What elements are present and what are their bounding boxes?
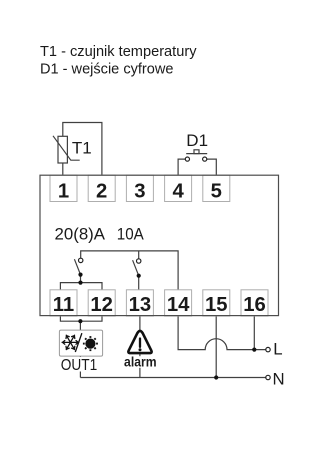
svg-text:T1 - czujnik temperatury: T1 - czujnik temperatury	[40, 43, 197, 60]
svg-text:13: 13	[129, 294, 152, 316]
svg-text:alarm: alarm	[124, 354, 157, 369]
svg-text:14: 14	[167, 294, 190, 316]
svg-text:16: 16	[243, 294, 266, 316]
svg-text:20(8)A: 20(8)A	[55, 224, 106, 243]
svg-text:12: 12	[90, 294, 113, 316]
svg-text:2: 2	[96, 180, 107, 202]
svg-text:10A: 10A	[117, 224, 145, 243]
svg-text:4: 4	[172, 180, 184, 202]
svg-text:1: 1	[58, 180, 69, 202]
svg-text:5: 5	[211, 180, 222, 202]
svg-text:11: 11	[53, 294, 74, 316]
svg-text:D1: D1	[186, 131, 208, 150]
svg-text:15: 15	[205, 294, 228, 316]
svg-text:D1 - wejście cyfrowe: D1 - wejście cyfrowe	[40, 60, 174, 77]
svg-text:T1: T1	[72, 139, 92, 158]
svg-text:OUT1: OUT1	[61, 357, 98, 374]
svg-text:3: 3	[134, 180, 145, 202]
svg-text:L: L	[273, 340, 282, 359]
svg-text:N: N	[273, 369, 285, 388]
